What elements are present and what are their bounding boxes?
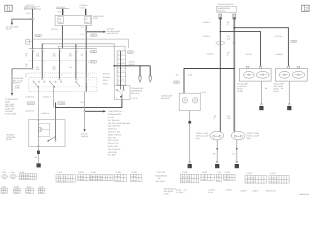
dashed switch box xyxy=(29,78,97,92)
C-402 diamond labels row1 xyxy=(25,95,51,98)
svg-text:RELAY: RELAY xyxy=(6,138,13,141)
svg-text:C-4: C-4 xyxy=(81,33,84,36)
svg-text:8: 8 xyxy=(118,83,119,86)
svg-text:SIG LPSM: SIG LPSM xyxy=(108,151,117,154)
passing control relay box xyxy=(29,120,65,147)
svg-text:1 2-B W: 1 2-B W xyxy=(208,188,215,191)
battery feed wire xyxy=(62,9,64,16)
legend note text xyxy=(155,174,167,183)
branch 1 to headlamp LH xyxy=(220,32,260,67)
svg-text:4 5-R: 4 5-R xyxy=(208,191,213,194)
svg-text:COLUMN SWITCH: COLUMN SWITCH xyxy=(218,3,235,6)
svg-text:C-310: C-310 xyxy=(132,171,137,174)
svg-text:1 (C-4): 1 (C-4) xyxy=(131,97,137,100)
svg-text:COLUMN SW: COLUMN SW xyxy=(108,125,120,128)
headlamp ground wires xyxy=(260,81,262,104)
svg-text:2: 2 xyxy=(88,74,89,77)
svg-text:1: 1 xyxy=(8,6,11,12)
svg-text:C-102: C-102 xyxy=(246,172,251,175)
wire from fuse2 down xyxy=(85,26,87,92)
svg-text:2/5 R-W: 2/5 R-W xyxy=(103,76,110,79)
label FUSIBLE LINK xyxy=(80,4,89,9)
svg-text:C-11: C-11 xyxy=(217,171,221,174)
svg-text:4: 4 xyxy=(77,79,78,82)
svg-text:◂ A5G-R ▸: ◂ A5G-R ▸ xyxy=(25,110,34,113)
svg-text:C-22: C-22 xyxy=(128,51,132,54)
P2 arrow down xyxy=(84,129,86,132)
oval C-22 right of strip xyxy=(127,51,134,53)
wire P2 vertical xyxy=(84,92,86,130)
left lighting switch branch wire xyxy=(12,69,33,93)
legend grid C-301 xyxy=(115,174,127,181)
legend grid C-101 xyxy=(56,175,75,183)
big wire list text block xyxy=(108,110,131,157)
svg-text:1-PTA-R: 1-PTA-R xyxy=(51,28,59,31)
svg-text:1 2B LP: 1 2B LP xyxy=(252,189,259,192)
svg-text:4-A5B-B: 4-A5B-B xyxy=(275,53,283,56)
svg-text:1-A5G-L: 1-A5G-L xyxy=(207,53,214,56)
wire from fuse1 down to bus xyxy=(61,26,63,49)
contact circles top row xyxy=(32,49,87,50)
combination lamp label xyxy=(161,94,173,99)
relay inner box xyxy=(39,123,50,136)
legend row 2 box 2 xyxy=(14,188,20,193)
dark switch output path P1 xyxy=(56,100,122,108)
svg-text:5: 5 xyxy=(43,50,44,53)
svg-text:2/5 R: 2/5 R xyxy=(103,79,108,82)
svg-text:C-301: C-301 xyxy=(116,171,121,174)
svg-text:RLY BOX: RLY BOX xyxy=(108,154,117,157)
svg-text:(C22): (C22) xyxy=(15,87,20,90)
text to fog lamp xyxy=(6,25,20,30)
wire from bank V3 down xyxy=(53,87,55,107)
svg-text:5: 5 xyxy=(118,70,119,73)
label JOINT CONNECTOR (top-left) xyxy=(24,4,36,9)
svg-text:(A-02): (A-02) xyxy=(237,90,243,93)
svg-text:G: G xyxy=(260,107,262,110)
svg-text:RLY SW AND: RLY SW AND xyxy=(108,119,120,122)
svg-text:(2): (2) xyxy=(85,17,88,20)
relay contact diagonal xyxy=(48,137,56,141)
svg-text:TAIL SIG LAMP COLUMN: TAIL SIG LAMP COLUMN xyxy=(108,122,131,125)
svg-text:OUTPUT: OUTPUT xyxy=(13,82,22,85)
pin terminal B xyxy=(233,14,236,19)
legend grid C-410 xyxy=(224,174,235,180)
svg-text:HEAD LPRD LP: HEAD LPRD LP xyxy=(108,133,122,136)
svg-text:C-04: C-04 xyxy=(291,40,295,43)
svg-text:2: 2 xyxy=(305,6,308,12)
svg-text:A8W0124N: A8W0124N xyxy=(299,193,309,196)
svg-text:AUML RELAY: AUML RELAY xyxy=(107,32,120,35)
svg-text:2/5 G: 2/5 G xyxy=(103,83,108,86)
svg-text:1: 2-5W .....: 1: 2-5W ..... xyxy=(176,191,186,194)
svg-text:SWITCH): SWITCH) xyxy=(217,10,225,13)
inline connector dark xyxy=(37,151,40,154)
svg-text:C-22: C-22 xyxy=(91,61,95,64)
relay ground wire xyxy=(37,147,39,164)
svg-text:G-L: G-L xyxy=(176,73,179,76)
svg-text:(A5G-R): (A5G-R) xyxy=(81,135,88,138)
dark bus to bullet terminals xyxy=(114,65,150,67)
headlamp box 2 xyxy=(275,68,307,81)
dark arrow branch right xyxy=(85,110,103,112)
oval C-4 labels xyxy=(216,41,225,44)
wire branch left xyxy=(12,19,33,23)
svg-text:G: G xyxy=(235,165,237,168)
stepped line L1 from W1 to connector strip xyxy=(33,39,129,48)
svg-text:SW) (C-4): SW) (C-4) xyxy=(131,92,140,95)
svg-text:G: G xyxy=(216,165,218,168)
svg-text:C-22: C-22 xyxy=(91,34,95,37)
dashed row line 2 xyxy=(29,72,97,74)
connector circle on W1 xyxy=(32,18,34,20)
legend grid C-102 xyxy=(245,176,266,184)
legend oval A-10 xyxy=(10,175,16,179)
svg-text:◂ A5G-R ▸: ◂ A5G-R ▸ xyxy=(25,95,34,98)
dashed row line 1 xyxy=(29,60,97,62)
svg-text:C-402: C-402 xyxy=(182,171,187,174)
fuse F1 xyxy=(58,17,63,24)
svg-text:PLATE LAMP: PLATE LAMP xyxy=(5,112,17,115)
svg-text:A5G R 5W: A5G R 5W xyxy=(155,180,164,183)
bank vertical V2 xyxy=(41,44,43,79)
svg-text:EACH ATM: EACH ATM xyxy=(108,145,118,148)
oval label near W1 xyxy=(35,34,42,37)
label column switch xyxy=(131,87,143,100)
wire labels right column xyxy=(203,21,283,57)
legend grid C-210 xyxy=(90,175,113,181)
svg-text:C-205: C-205 xyxy=(78,171,83,174)
svg-text:A-30: A-30 xyxy=(2,171,6,174)
fusible link wire xyxy=(85,9,87,16)
svg-text:REMARKS IN: REMARKS IN xyxy=(155,174,167,177)
label lighting switch xyxy=(13,77,24,84)
svg-text:R-G: R-G xyxy=(53,55,57,58)
svg-text:3: 3 xyxy=(118,61,119,64)
svg-text:5: 5 xyxy=(61,61,62,64)
svg-text:G: G xyxy=(288,107,290,110)
svg-text:(RH): (RH) xyxy=(247,137,251,140)
bullet terminal 2 xyxy=(149,66,151,76)
fuse F2 xyxy=(85,17,91,24)
turn signal labels above bulbs xyxy=(214,115,232,120)
branch 2 from wire B xyxy=(234,28,288,67)
connector strip (middle column) xyxy=(117,51,126,85)
svg-text:4-PTA-B: 4-PTA-B xyxy=(275,35,283,38)
dark wire through strip xyxy=(120,51,122,86)
front turn signal bulb 2 xyxy=(231,131,245,140)
svg-text:C-4: C-4 xyxy=(81,26,84,29)
small 2-cell box left of W1 xyxy=(26,39,33,44)
arrow to headlamp relay xyxy=(86,31,104,33)
junction dot wire A xyxy=(220,31,222,33)
svg-text:C-202: C-202 xyxy=(28,102,33,105)
svg-text:C-210: C-210 xyxy=(91,171,96,174)
svg-text:G: G xyxy=(188,165,190,168)
stepped line L3 xyxy=(58,46,125,51)
svg-text:6: 6 xyxy=(77,50,78,53)
page number box 1 xyxy=(5,5,12,12)
svg-text:MAIN ALT SW: MAIN ALT SW xyxy=(108,131,120,134)
legend oval A-30 xyxy=(1,175,7,179)
ground G-09 xyxy=(37,163,41,167)
turn signal ground wires xyxy=(216,140,218,162)
svg-text:2: 2 xyxy=(34,50,35,53)
contact circles bottom xyxy=(42,78,87,79)
svg-text:2-A5G-L: 2-A5G-L xyxy=(203,35,210,38)
svg-text:2-A5G-L: 2-A5G-L xyxy=(203,21,210,24)
svg-text:R-G: R-G xyxy=(53,68,57,71)
label DEDICATED FUSE xyxy=(93,15,104,20)
svg-text:6: 6 xyxy=(61,74,62,77)
bank vertical V3 xyxy=(58,48,60,79)
wire from comb lamp down xyxy=(189,111,191,162)
label to headlamp relay xyxy=(107,28,121,35)
svg-text:◂ A5G-L ▸: ◂ A5G-L ▸ xyxy=(41,112,49,115)
legend row 2 headers xyxy=(2,186,44,189)
svg-text:1 2B-LP: 1 2B-LP xyxy=(240,189,248,192)
svg-text:PB-B R-LP: PB-B R-LP xyxy=(266,189,276,192)
svg-text:3: 3 xyxy=(60,50,61,53)
page number box 2 xyxy=(302,5,309,12)
svg-text:C-410: C-410 xyxy=(225,171,230,174)
legend row 2 box 3 xyxy=(26,188,34,193)
front turn signal bulb 1 xyxy=(210,131,224,140)
svg-text:HELP HD: HELP HD xyxy=(108,136,117,139)
svg-text:1: 1 xyxy=(116,96,117,99)
svg-text:C-405: C-405 xyxy=(202,171,207,174)
svg-text:LINK 2: LINK 2 xyxy=(80,6,86,9)
svg-text:1 (C-4): 1 (C-4) xyxy=(200,91,206,94)
bulb labels xyxy=(196,132,260,140)
svg-text:6: 6 xyxy=(118,74,119,77)
svg-text:C-22: C-22 xyxy=(91,50,95,53)
svg-text:4-PTA-L: 4-PTA-L xyxy=(246,53,253,56)
svg-text:3: 3 xyxy=(88,61,89,64)
bank vertical V1 xyxy=(32,48,34,68)
wire W1 vertical from joint connector xyxy=(32,9,34,48)
svg-text:TURN VECR ALT: TURN VECR ALT xyxy=(108,110,124,113)
svg-text:B: 5W .... A5: B: 5W .... A5 xyxy=(176,188,187,191)
svg-text:C-101: C-101 xyxy=(57,171,62,174)
arrow head down xyxy=(11,93,13,96)
fuse box (junction block) xyxy=(55,15,91,25)
labels near bus xyxy=(176,73,193,76)
strip cell labels left xyxy=(103,72,110,85)
stepped line L2 from bank V2 xyxy=(42,44,114,86)
svg-text:(LH): (LH) xyxy=(196,137,200,140)
svg-text:C-110: C-110 xyxy=(270,172,275,175)
svg-text:7: 7 xyxy=(118,78,119,81)
svg-text:14-28: 14-28 xyxy=(164,192,169,195)
svg-text:A-10: A-10 xyxy=(11,171,15,174)
relay contacts at wire entries xyxy=(38,119,39,120)
svg-text:1/5: 1/5 xyxy=(69,66,72,69)
svg-text:(2): (2) xyxy=(59,17,62,20)
footer legend symbols xyxy=(176,188,276,194)
ground circle + square 1 xyxy=(189,161,191,163)
bullet terminal 1 xyxy=(139,66,141,76)
svg-text:5: 5 xyxy=(88,79,89,82)
legend small grid C-11 xyxy=(216,174,221,181)
svg-text:1 2B LP: 1 2B LP xyxy=(226,188,233,191)
text block combination meter xyxy=(5,84,20,115)
svg-text:C-02 C-03: C-02 C-03 xyxy=(156,171,165,174)
svg-text:G: G xyxy=(37,165,39,168)
C-202 boxed labels xyxy=(27,102,65,105)
wire gauge labels in bank xyxy=(25,52,83,77)
svg-text:(DIMMER/PAS: (DIMMER/PAS xyxy=(217,7,230,10)
legend grid C-110 xyxy=(269,176,289,184)
headlamp box 1 xyxy=(239,68,271,81)
svg-text:GRY ALT LP: GRY ALT LP xyxy=(108,142,119,145)
svg-text:RELAY: RELAY xyxy=(6,28,13,31)
svg-text:2: 2 xyxy=(44,61,45,64)
combination lamp box xyxy=(179,93,200,111)
C-402 diamond labels row2 xyxy=(25,110,49,116)
svg-text:C-202: C-202 xyxy=(59,102,64,105)
svg-text:FUSE: FUSE xyxy=(93,17,99,20)
legend row 2 box 4 xyxy=(38,188,45,193)
pin terminal A xyxy=(219,14,222,19)
svg-text:RH (A-03): RH (A-03) xyxy=(161,97,170,100)
legend grid C-310 xyxy=(131,174,142,181)
legend grid C-205 xyxy=(78,175,89,181)
svg-text:2/5 R-B: 2/5 R-B xyxy=(103,72,110,75)
svg-text:1: 1 xyxy=(78,61,79,64)
wire through relay xyxy=(37,120,39,147)
relay coil xyxy=(38,128,42,132)
svg-text:TAIL SYSM LP: TAIL SYSM LP xyxy=(108,148,121,151)
legend grid C-402 xyxy=(180,174,199,182)
svg-text:4: 4 xyxy=(44,74,45,77)
wire from bank V2 down to relay xyxy=(37,87,39,120)
lighting switch box top line xyxy=(29,47,97,49)
svg-text:(A-01): (A-01) xyxy=(274,90,280,93)
junction circle on P2 xyxy=(84,111,86,113)
svg-text:C-22: C-22 xyxy=(36,34,40,37)
svg-text:(2-4): (2-4) xyxy=(27,12,31,15)
dark wire from P1 into relay xyxy=(55,108,57,141)
dark horizontal bus y=68.5 xyxy=(184,69,234,94)
note text mid xyxy=(164,188,177,196)
legend grid C-22 xyxy=(19,174,36,180)
svg-text:1: 1 xyxy=(118,52,119,55)
arrow down xyxy=(11,23,13,26)
wire A vertical xyxy=(219,19,221,132)
svg-text:2: 2 xyxy=(118,57,119,60)
svg-text:A-L ALT: A-L ALT xyxy=(108,116,116,119)
headlamp labels under boxes xyxy=(237,83,284,93)
dimmer switch box xyxy=(115,86,131,100)
bank vertical V4 xyxy=(75,44,77,79)
legend row 2 box 1 xyxy=(1,188,7,193)
svg-text:SIG LP AND: SIG LP AND xyxy=(108,139,119,142)
svg-text:COMBINATION: COMBINATION xyxy=(108,113,122,116)
svg-text:SWITCH A: SWITCH A xyxy=(108,128,118,131)
label (C-4) below xyxy=(90,34,97,36)
oval C-22 labels right of bank xyxy=(90,50,97,63)
svg-text:C-03: C-03 xyxy=(174,81,178,84)
switch wipers in dashed box xyxy=(29,86,97,88)
svg-text:1/8: 1/8 xyxy=(81,53,84,56)
label passing control relay xyxy=(6,133,15,141)
svg-text:◂ A5G-L ▸: ◂ A5G-L ▸ xyxy=(43,95,51,98)
wire B vertical thick xyxy=(233,19,235,132)
legend grid C-405 xyxy=(201,174,214,180)
